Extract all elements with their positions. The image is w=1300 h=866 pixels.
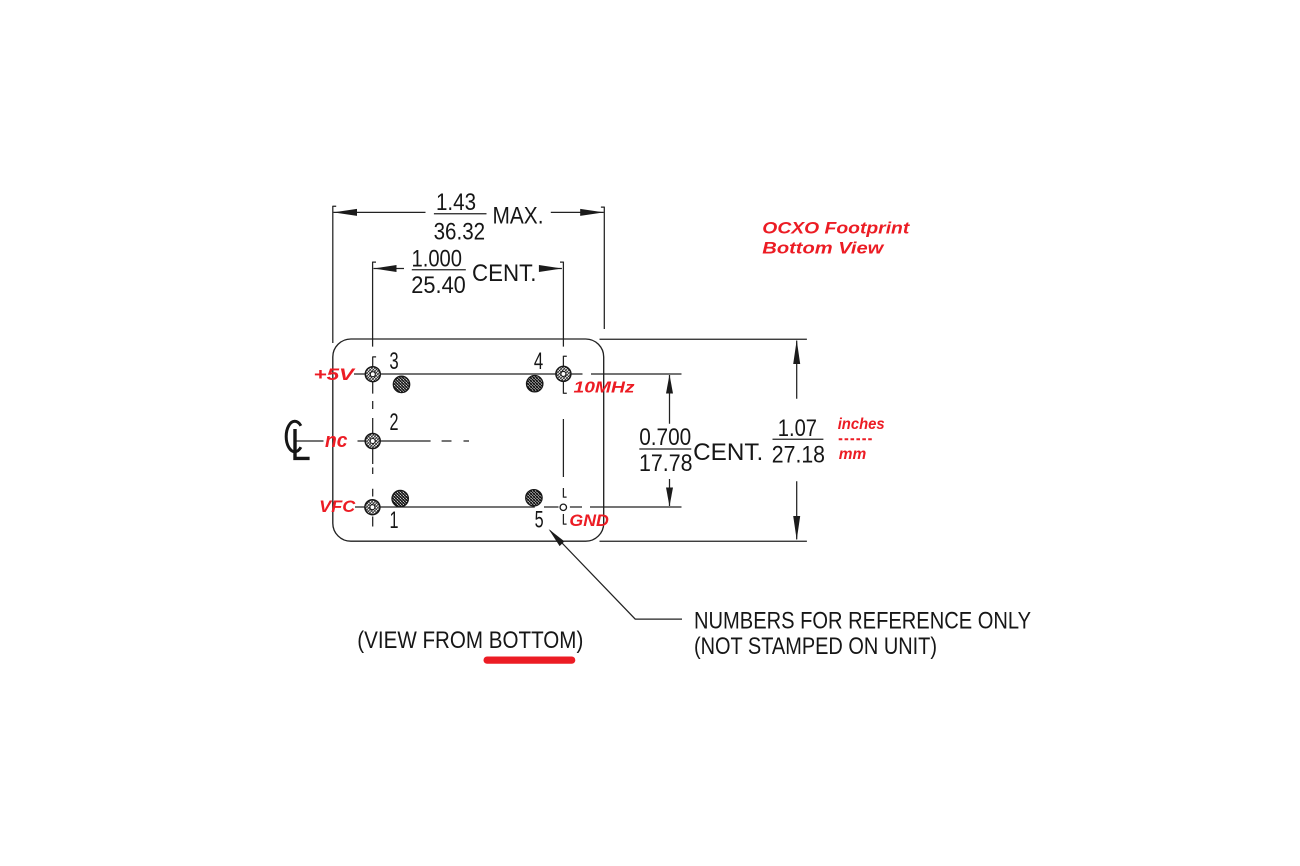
svg-text:Bottom View: Bottom View	[762, 239, 885, 258]
dimension line 0.700 vertical	[669, 375, 671, 506]
extension line right for 1.43 dim	[601, 207, 604, 329]
arrowhead 0.700 up	[666, 375, 673, 394]
svg-text:inches: inches	[838, 416, 885, 433]
svg-text:2: 2	[390, 409, 399, 436]
dimension line 1.43 MAX	[333, 211, 603, 213]
fraction bar 0.700/17.78	[639, 448, 691, 450]
fraction bar 1.07/27.18	[773, 438, 824, 440]
svg-text:(NOT STAMPED ON UNIT): (NOT STAMPED ON UNIT)	[694, 633, 937, 660]
svg-text:10MHz: 10MHz	[574, 379, 635, 396]
svg-text:OCXO Footprint: OCXO Footprint	[762, 219, 911, 238]
svg-text:mm: mm	[839, 446, 867, 463]
bottom pin row centerline (pins 1-5)	[355, 506, 682, 508]
hatched pad near pin 5	[526, 490, 542, 506]
pin 5 (GND) small hole	[560, 504, 566, 510]
svg-text:1: 1	[390, 507, 399, 534]
pin 4 (10MHz)	[556, 366, 571, 381]
right pin column centerline	[563, 356, 566, 525]
svg-text:CENT.: CENT.	[693, 439, 763, 466]
svg-text:25.40: 25.40	[411, 272, 466, 299]
arrowhead 0.700 down	[666, 488, 673, 507]
svg-text:(VIEW FROM BOTTOM): (VIEW FROM BOTTOM)	[357, 627, 583, 654]
extension line right for 1.000 dim	[560, 262, 563, 347]
centerline symbol	[286, 421, 309, 458]
dimension line 1.07 vertical	[796, 341, 798, 540]
svg-text:5: 5	[535, 507, 544, 534]
leader arrowhead at pin 5	[549, 529, 565, 546]
extension line left for 1.000 dim	[373, 262, 376, 347]
extension line bottom for 1.07 dim	[600, 540, 807, 542]
red dashed separator	[839, 438, 874, 440]
arrowhead 1.07 up	[793, 340, 800, 364]
arrowhead 1.43 left	[333, 209, 357, 216]
svg-text:0.700: 0.700	[639, 424, 691, 451]
fraction bar 1.43/36.32	[434, 213, 487, 215]
hatched pad near pin 4	[527, 376, 543, 392]
hatched pad near pin 3	[393, 376, 409, 392]
hatched pad near pin 1	[392, 490, 408, 506]
arrowhead 1.43 right	[580, 209, 604, 216]
svg-text:NUMBERS FOR REFERENCE ONLY: NUMBERS FOR REFERENCE ONLY	[694, 607, 1031, 634]
arrowhead 1.07 down	[793, 516, 800, 540]
svg-text:nc: nc	[325, 430, 348, 452]
dimension line 1.000 CENT	[374, 268, 562, 270]
svg-text:36.32: 36.32	[434, 219, 486, 246]
arrowhead 1.000 right	[539, 265, 562, 272]
svg-text:MAX.: MAX.	[493, 202, 544, 229]
arrowhead 1.000 left	[374, 265, 397, 272]
svg-text:27.18: 27.18	[772, 441, 825, 468]
svg-text:17.78: 17.78	[639, 450, 693, 477]
leader line from pin 5 to note	[550, 531, 682, 620]
middle pin row centerline (pin 2 / nc)	[294, 440, 470, 442]
pin 2 (nc)	[365, 434, 380, 449]
svg-text:1.43: 1.43	[436, 189, 476, 216]
package outline (OCXO bottom view body)	[333, 339, 604, 541]
extension line top for 1.07 dim	[600, 338, 807, 340]
svg-text:1.07: 1.07	[778, 415, 817, 442]
pin 1 (VFC)	[365, 500, 380, 515]
svg-text:1.000: 1.000	[412, 246, 463, 273]
svg-text:+5V: +5V	[314, 365, 357, 384]
pin 3 (+5V)	[365, 367, 380, 382]
top pin row centerline (pins 3-4)	[354, 373, 682, 375]
svg-text:GND: GND	[569, 511, 609, 530]
svg-text:4: 4	[534, 348, 543, 375]
svg-text:3: 3	[389, 348, 398, 375]
svg-text:VFC: VFC	[319, 497, 356, 516]
extension line left for 1.43 dim	[333, 206, 336, 343]
fraction bar 1.000/25.40	[412, 269, 466, 271]
left pin column centerline	[373, 357, 376, 527]
red underline under BOTTOM	[484, 657, 576, 664]
svg-text:CENT.: CENT.	[472, 260, 537, 287]
